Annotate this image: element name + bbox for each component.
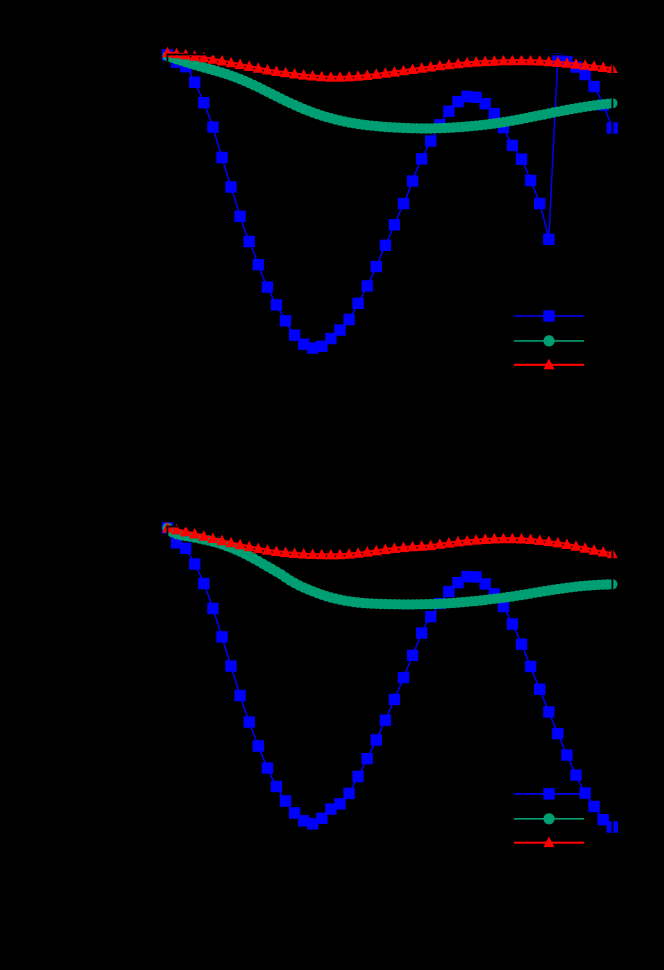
- bottom red series data line: [168, 528, 613, 555]
- top blue series markers: [162, 49, 618, 354]
- bottom blue series data line: [168, 528, 613, 827]
- bottom axes spines (black, drawn over data): [167, 527, 612, 867]
- top green series data line: [168, 56, 613, 128]
- top axes spines (black, drawn over data): [167, 55, 612, 395]
- legend (top) red entry: [514, 359, 584, 370]
- bottom red series markers: [162, 522, 618, 560]
- legend (top) green entry: [514, 335, 584, 346]
- bottom green series markers: [162, 523, 617, 610]
- legend (bottom) blue entry: [514, 788, 584, 799]
- legend (bottom) green entry: [514, 813, 584, 824]
- bottom blue series markers: [162, 522, 618, 832]
- top red series data line: [168, 52, 613, 77]
- legend (bottom) red entry: [514, 837, 584, 848]
- top green series markers: [162, 51, 617, 134]
- bottom green series data line: [168, 528, 613, 604]
- top blue series data line: [168, 55, 613, 348]
- legend (top) blue entry: [514, 310, 584, 321]
- top red series markers: [162, 47, 618, 82]
